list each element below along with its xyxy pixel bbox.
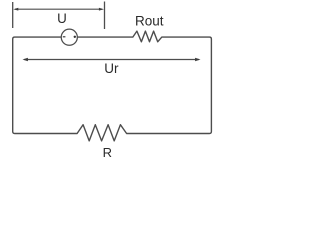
svg-text:Rout: Rout [135,14,164,29]
svg-text:U: U [57,11,67,26]
svg-text:Ur: Ur [104,61,119,76]
svg-text:R: R [103,145,112,160]
